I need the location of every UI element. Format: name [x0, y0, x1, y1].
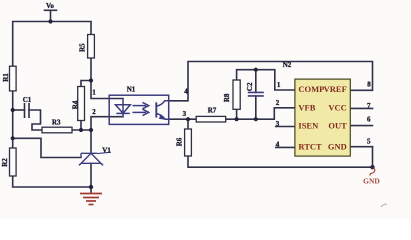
svg-text:R5: R5: [78, 43, 86, 52]
svg-text:VCC: VCC: [328, 102, 346, 112]
svg-text:R6: R6: [175, 137, 183, 146]
svg-text:3: 3: [183, 110, 187, 118]
svg-text:R2: R2: [1, 158, 9, 167]
svg-text:1: 1: [92, 88, 96, 96]
svg-text:7: 7: [367, 102, 371, 110]
svg-text:COMP: COMP: [298, 84, 324, 94]
svg-text:R7: R7: [208, 107, 217, 115]
svg-text:Vo: Vo: [46, 2, 54, 10]
svg-text:R8: R8: [223, 93, 231, 102]
svg-text:C2: C2: [246, 82, 254, 91]
svg-text:N1: N1: [127, 85, 136, 93]
svg-text:GND: GND: [363, 176, 380, 185]
svg-text:R1: R1: [2, 73, 10, 82]
svg-text:2: 2: [276, 99, 280, 107]
svg-text:ISEN: ISEN: [298, 121, 319, 131]
svg-text:N2: N2: [283, 61, 292, 69]
svg-text:VFB: VFB: [298, 102, 315, 112]
svg-text:V1: V1: [102, 146, 111, 154]
svg-text:6: 6: [367, 116, 371, 124]
svg-text:8: 8: [367, 81, 371, 89]
svg-text:RTCT: RTCT: [298, 142, 322, 152]
svg-text:5: 5: [367, 138, 371, 146]
svg-text:R4: R4: [72, 100, 80, 109]
svg-text:2: 2: [92, 108, 96, 116]
svg-text:3: 3: [276, 120, 280, 128]
svg-text:GND: GND: [328, 142, 347, 152]
svg-text:4: 4: [276, 141, 280, 149]
svg-text:R3: R3: [52, 118, 61, 126]
svg-text:C1: C1: [23, 96, 32, 104]
svg-text:VREF: VREF: [324, 84, 347, 94]
svg-text:4: 4: [184, 88, 188, 96]
svg-text:1: 1: [277, 81, 281, 89]
svg-text:OUT: OUT: [328, 121, 347, 131]
